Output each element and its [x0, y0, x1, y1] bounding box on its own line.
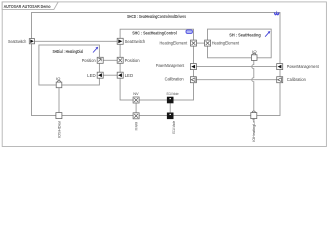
- port NVRAM on SHCD bottom: [133, 113, 139, 131]
- svg-text:HeatingElement: HeatingElement: [160, 41, 188, 46]
- port SeatSwitch on SHC left: [117, 38, 146, 44]
- port HeatingElement on SH left: [205, 40, 240, 46]
- port PowerManagement on SHCD right: [277, 64, 320, 70]
- svg-text:Position: Position: [125, 58, 141, 63]
- wire PowerManagement: [196, 66, 276, 68]
- svg-text:NV: NV: [133, 91, 139, 96]
- svg-text:IOHeatingLeft: IOHeatingLeft: [251, 118, 256, 142]
- svg-text:PowerManagement: PowerManagement: [287, 64, 320, 69]
- port IOSHDial on SHCD bottom: [56, 113, 62, 139]
- svg-text:Calibration: Calibration: [165, 77, 185, 82]
- wire IO SHDial down: [58, 88, 60, 113]
- svg-text:HeatingElement: HeatingElement: [212, 41, 240, 46]
- wire NV down: [135, 103, 137, 113]
- port Calibration on SHC right: [165, 77, 197, 83]
- blue rounded icon SHC top-right: [186, 30, 192, 34]
- wire LED: [103, 74, 117, 76]
- port LED on SHDial right: [87, 72, 103, 78]
- wire HeatingElement: [197, 42, 205, 44]
- port Position on SHDial right: [82, 57, 104, 63]
- component SHDial box: [39, 45, 100, 85]
- svg-text:ECU Mode: ECU Mode: [171, 121, 176, 134]
- port SeatSwitch on SHCD left: [8, 39, 35, 44]
- svg-text:LED: LED: [87, 73, 96, 78]
- blue composite arrow SHDial: [93, 47, 98, 53]
- svg-text:NVRAM: NVRAM: [134, 122, 139, 130]
- wire Calibration: [196, 79, 276, 81]
- svg-text:PowerManagement: PowerManagement: [156, 63, 185, 68]
- svg-text:IOSHDial: IOSHDial: [56, 121, 61, 138]
- svg-text:SHDial : HeatingDial: SHDial : HeatingDial: [53, 49, 84, 54]
- svg-text:SH : SeatHeating: SH : SeatHeating: [229, 32, 261, 37]
- port ECU Mode on SHCD bottom: [167, 113, 176, 134]
- svg-text:ECU Mode: ECU Mode: [167, 91, 179, 96]
- component SH box: [208, 29, 272, 58]
- svg-text:IO: IO: [252, 49, 256, 54]
- blue omega glyph SHCD top-right: [274, 12, 279, 14]
- wire ECU Mode down: [169, 103, 171, 113]
- svg-text:IO: IO: [56, 76, 60, 81]
- port LED on SHC left: [117, 72, 133, 78]
- blue composite arrow SH: [265, 31, 270, 37]
- svg-text:SeatSwitch: SeatSwitch: [8, 39, 27, 44]
- svg-text:LED: LED: [125, 73, 134, 78]
- component SHCD box: [32, 13, 281, 116]
- svg-text:SHC : SeatHeatingControl: SHC : SeatHeatingControl: [132, 31, 177, 36]
- port Calibration on SHCD right: [277, 77, 307, 83]
- port IO on SHDial bottom: [56, 76, 62, 88]
- wire SeatSwitch: [35, 40, 118, 42]
- port IOHeatingLeft on SHCD bottom: [251, 111, 257, 142]
- diagram frame: [2, 2, 326, 147]
- component SHC box: [120, 29, 193, 100]
- svg-text:Position: Position: [82, 58, 97, 63]
- frame title tab: [2, 2, 58, 10]
- svg-text:AUTOSAR AUTOSAR Demo: AUTOSAR AUTOSAR Demo: [4, 4, 51, 10]
- svg-text:Calibration: Calibration: [287, 77, 307, 82]
- wire Position: [103, 59, 117, 61]
- port Position on SHC left: [117, 57, 140, 63]
- port ECU Mode on SHC bottom: [167, 91, 179, 103]
- port NV on SHC bottom: [133, 91, 139, 103]
- port IO on SH bottom: [251, 49, 257, 60]
- port HeatingElement on SHC right: [160, 40, 197, 46]
- port PowerManagement on SHC right: [156, 63, 197, 69]
- svg-text:SeatSwitch: SeatSwitch: [125, 39, 146, 44]
- wire IO SH down with hops: [252, 60, 254, 112]
- svg-text:SHCD : SeatHeatingControlAndDr: SHCD : SeatHeatingControlAndDrivers: [127, 14, 187, 19]
